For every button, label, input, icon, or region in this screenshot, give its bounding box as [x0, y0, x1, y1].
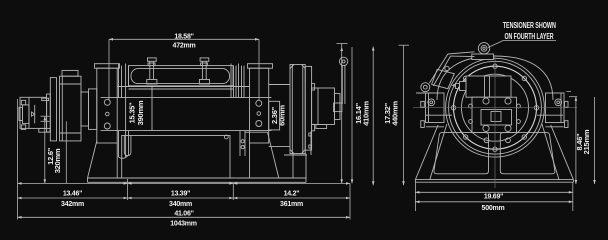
dim 8.46in line — [575, 97, 577, 184]
brake plate strip — [305, 66, 311, 150]
left plate hole top — [104, 99, 110, 105]
tensioner pin — [445, 66, 449, 70]
right plate hole bottom — [256, 121, 262, 127]
right view ext left — [414, 182, 416, 211]
inner ring — [462, 74, 529, 141]
left plate hole bottom — [104, 123, 110, 129]
svg-text:1043mm: 1043mm — [170, 220, 197, 227]
bottom tier3 arrows — [18, 216, 22, 219]
right view dim arrows — [415, 191, 419, 194]
drum flange bolt ring — [454, 66, 537, 149]
svg-text:340mm: 340mm — [169, 201, 192, 208]
motor outer cap — [19, 108, 23, 121]
left side plate bolt — [428, 99, 435, 106]
bottom tier1 arrows — [18, 182, 22, 185]
housing outer profile — [437, 56, 553, 100]
right view dim line2 — [415, 201, 572, 203]
dim 17.32in line — [372, 47, 374, 186]
spacer flange — [89, 89, 97, 129]
right foot top edge — [245, 131, 268, 133]
pedestal right cutout — [500, 133, 555, 174]
dim 16.14in line — [341, 44, 343, 184]
bottom ext x350 — [349, 183, 351, 219]
flange bolt holes — [534, 106, 538, 110]
right foot slant — [268, 132, 279, 178]
tie bolt right shaft — [201, 61, 203, 79]
left upright cap — [95, 64, 120, 68]
tie bolt right base — [199, 80, 209, 85]
svg-text:18.58": 18.58" — [174, 33, 193, 40]
svg-text:410mm: 410mm — [362, 101, 371, 126]
tensioner arm link — [448, 52, 475, 54]
svg-text:215mm: 215mm — [582, 129, 591, 154]
right side plate — [546, 93, 565, 123]
bottom ext x17.5 — [17, 99, 19, 220]
left side plate — [426, 93, 445, 123]
main gear block — [472, 97, 517, 132]
motor bottom tab — [39, 128, 50, 132]
tensioner pivot — [421, 83, 430, 92]
gear block center square — [491, 112, 501, 122]
right plate hole mid — [257, 112, 261, 116]
left foot slant — [88, 141, 97, 178]
svg-text:440mm: 440mm — [390, 101, 399, 126]
brake hub — [269, 101, 280, 130]
svg-text:390mm: 390mm — [136, 100, 145, 125]
dim extension through band — [151, 87, 153, 131]
dim 18.58in ext left — [108, 39, 110, 100]
gear block inner rect — [481, 110, 512, 126]
clutch end cap — [335, 94, 341, 120]
base plate bottom — [88, 181, 307, 183]
drum left flange lower — [118, 131, 120, 157]
tie bolt right nut — [200, 58, 209, 61]
valve block — [466, 76, 511, 97]
clutch lever knob — [339, 57, 347, 65]
drum top slot — [131, 69, 230, 84]
tensioner bracket plate — [432, 69, 455, 88]
brake drum edges — [269, 84, 290, 86]
vertical dim arrows — [44, 116, 47, 120]
pedestal right leg inner — [542, 124, 559, 180]
clutch lever shaft — [341, 66, 343, 105]
coupling — [81, 92, 89, 126]
base left edge — [87, 178, 89, 182]
drum core top line — [117, 86, 249, 88]
leg top joints — [426, 126, 444, 128]
dim 18.58in ext right — [258, 39, 260, 100]
drum top band — [129, 66, 234, 86]
svg-text:14.2": 14.2" — [284, 191, 300, 198]
bottom tier2 arrows — [18, 197, 22, 200]
bottom tier2 line — [18, 197, 351, 199]
tie bolt left base — [147, 80, 157, 85]
svg-text:13.39": 13.39" — [171, 191, 190, 198]
right end support legs — [292, 154, 294, 178]
right foot inner edge — [249, 143, 251, 178]
pedestal base bottom — [415, 181, 573, 183]
svg-text:320mm: 320mm — [53, 148, 62, 173]
right side plate bolt — [555, 99, 562, 106]
clutch flange disc — [290, 65, 305, 154]
right view ext right — [572, 182, 574, 211]
right upright cap — [248, 64, 273, 68]
horizontal centerline — [413, 107, 577, 109]
cross member hole — [224, 135, 228, 139]
flange edge through band — [125, 64, 127, 158]
left upright plate — [97, 68, 117, 143]
tensioner roller — [478, 43, 489, 54]
drum left flange edges — [118, 64, 120, 98]
centerlines — [413, 55, 577, 188]
gear block ports — [483, 98, 489, 104]
roller boss — [472, 54, 494, 60]
drum right flange edges — [230, 64, 232, 98]
pedestal base lip — [415, 179, 573, 181]
gear housing internal lines — [61, 76, 63, 141]
drum right flange lower — [239, 131, 241, 156]
tie bolt left nut — [148, 58, 157, 61]
clutch lever base — [334, 103, 342, 112]
leader line — [504, 39, 557, 41]
right plate hole top — [256, 100, 262, 106]
gear housing — [60, 76, 82, 141]
tensioner pivot base — [416, 92, 435, 94]
right end bracket — [284, 154, 307, 156]
bottom ext x127.6 — [127, 179, 129, 200]
svg-text:472mm: 472mm — [173, 42, 196, 49]
svg-text:19.69": 19.69" — [484, 194, 503, 201]
vertical centerline — [494, 55, 496, 188]
svg-text:500mm: 500mm — [482, 205, 505, 212]
clutch housing divider — [317, 88, 319, 125]
svg-text:41.06": 41.06" — [174, 210, 193, 217]
mounting bolts — [469, 104, 473, 108]
svg-text:ON FOURTH LAYER: ON FOURTH LAYER — [505, 32, 554, 41]
cross member plate — [122, 136, 230, 179]
tensioner arm strap — [429, 54, 448, 83]
base right edge — [305, 178, 307, 182]
left plate hole mid — [106, 112, 110, 116]
motor top bolts — [42, 98, 49, 100]
gear housing top step — [62, 70, 78, 76]
tie bolt left shaft — [149, 61, 151, 79]
valve fitting — [460, 82, 467, 91]
base plate top — [88, 177, 307, 179]
pedestal left leg inner — [430, 124, 447, 180]
cross member slot — [124, 136, 131, 156]
arrowheads — [18, 38, 596, 219]
dim 12.6in line — [44, 116, 46, 183]
motor shaft marker — [32, 112, 35, 116]
bottom ext x233.3 — [232, 183, 234, 200]
pedestal left cutout — [434, 133, 489, 174]
left plate bolt stacks — [421, 101, 425, 107]
right plate bolt stacks — [565, 101, 569, 107]
bottom tier3 line — [18, 216, 351, 218]
drum flange outer circle — [446, 58, 545, 157]
drum band top edge — [101, 97, 272, 99]
right upright plate — [250, 68, 269, 143]
adapter ring 2 — [50, 78, 56, 141]
dim 18.58in line — [109, 38, 259, 40]
clutch housing — [312, 88, 335, 125]
housing ring — [449, 61, 542, 154]
svg-text:342mm: 342mm — [61, 201, 84, 208]
dim 18.58 arrows — [109, 38, 113, 41]
motor end cap — [23, 105, 29, 124]
pedestal right leg outer — [551, 125, 574, 180]
right view dim line1 — [415, 191, 572, 193]
svg-text:361mm: 361mm — [280, 201, 303, 208]
svg-text:TENSIONER SHOWN: TENSIONER SHOWN — [503, 21, 556, 30]
drum band bottom edge — [101, 130, 272, 132]
clutch flange chamfers — [290, 65, 294, 69]
adapter ring 1 — [47, 94, 51, 132]
bottom tier1 line — [18, 182, 351, 184]
svg-text:13.46": 13.46" — [63, 191, 82, 198]
svg-text:60mm: 60mm — [278, 105, 287, 126]
hydraulic motor body — [20, 97, 47, 128]
pedestal left leg outer — [415, 125, 438, 180]
left foot inner edge — [116, 143, 118, 178]
clutch housing tab — [316, 125, 327, 129]
motor corner tabs — [21, 100, 25, 105]
motor internal line — [28, 97, 30, 128]
plate hardware circles — [241, 140, 244, 143]
